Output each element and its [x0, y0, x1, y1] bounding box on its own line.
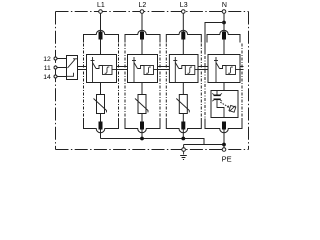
- spark gap FS ticks: [212, 93, 222, 101]
- wire module 1 to PE bus (elbow): [100, 130, 102, 139]
- spark gap box: [211, 91, 238, 118]
- module 2 outline top (solid bracket, wire hop): [125, 30, 160, 42]
- wire terminal 12: [57, 58, 67, 60]
- spark gap FS bottom electrode: [214, 99, 221, 101]
- svg-text:L2: L2: [139, 2, 147, 9]
- monitoring box U3: [169, 55, 198, 83]
- node bus-L3: [181, 137, 185, 141]
- monitoring chain lower wire 1-2: [117, 69, 128, 71]
- svg-text:14: 14: [43, 74, 51, 81]
- varistor R2 diagonal: [135, 99, 148, 113]
- module 4 left side (dash-dot): [204, 56, 206, 119]
- module 1 outline top (solid bracket, wire hop): [84, 30, 119, 42]
- node PE junction: [222, 143, 226, 147]
- lower disconnector module 4 (black): [222, 122, 226, 130]
- wire L2 down to module: [141, 13, 143, 54]
- node N junction: [222, 21, 226, 25]
- wire terminal 14: [57, 76, 67, 78]
- monitoring chain upper wire 2-3: [158, 66, 170, 68]
- chain stub lower after module 4: [240, 69, 244, 71]
- ground symbol: [180, 151, 187, 159]
- chain stub upper after module 4: [240, 66, 244, 68]
- spark gap FS top electrode: [214, 95, 221, 97]
- module 2 outline bottom (solid bracket, wire hop): [125, 119, 160, 133]
- box U3 contact tick: [173, 60, 177, 62]
- box U2 pulse step: [138, 66, 145, 69]
- varistor R1 body: [97, 95, 105, 114]
- varistor R1 diagonal: [94, 99, 107, 113]
- enclosure right border (dash-dot): [248, 12, 250, 150]
- FM changeover blade: [68, 59, 76, 68]
- thermal disconnector F1 (black): [99, 32, 103, 40]
- module 3 left side (dash-dot): [165, 44, 167, 119]
- monitoring box U1: [87, 55, 117, 83]
- module 1 outline bottom (solid bracket, wire hop): [84, 119, 119, 133]
- box U1 switch blade: [93, 63, 97, 69]
- box U4 contact tick: [214, 60, 218, 62]
- terminal L2: [140, 10, 144, 14]
- box U3 contact stem: [174, 57, 176, 82]
- trigger arrowhead: [227, 105, 230, 108]
- svg-text:12: 12: [43, 56, 51, 63]
- terminal 14: [54, 75, 57, 78]
- box U1 contact tick: [91, 60, 95, 62]
- wire box to spark gap box: [223, 83, 225, 91]
- thermal disconnector F3 (black): [181, 32, 185, 40]
- wire PE node to PE terminal: [223, 145, 225, 148]
- varistor R2 body: [138, 95, 146, 114]
- terminal L1: [99, 10, 103, 14]
- svg-text:PE: PE: [222, 155, 232, 164]
- box U1 indicator square: [103, 66, 113, 75]
- box U3 indicator square: [185, 66, 195, 75]
- wire bus to earth terminal: [183, 145, 185, 148]
- FM contact box: [67, 56, 78, 80]
- box U2 square exit wire: [154, 69, 159, 71]
- wire N junction to module: [223, 23, 225, 55]
- terminal 11: [54, 66, 57, 69]
- spark gap FS bottom lead: [217, 100, 224, 117]
- PE bus lower run: [184, 144, 224, 146]
- varistor R3 body: [179, 95, 187, 114]
- box U2 contact tick: [132, 60, 136, 62]
- thermal disconnector F4 (black): [222, 32, 226, 40]
- module 2 right side (dash-dot): [159, 44, 161, 119]
- wire N branch to module left: [205, 23, 224, 55]
- svg-text:11: 11: [44, 65, 51, 72]
- thermal disconnector F2 (black): [140, 32, 144, 40]
- wire box to varistor 3: [182, 83, 184, 95]
- trigger square (tilted): [229, 105, 236, 112]
- wire varistor 3 down: [182, 114, 184, 123]
- node bus-L2: [140, 137, 144, 141]
- box U3 square exit wire: [195, 69, 200, 71]
- lower disconnector module 3 (black): [181, 122, 185, 130]
- box U2 contact stem: [133, 57, 135, 82]
- wire box to varistor 2: [141, 83, 143, 95]
- box U1 pulse step: [96, 66, 103, 69]
- wire terminal 11: [57, 67, 67, 69]
- FM contact 12 tick: [73, 58, 78, 60]
- trigger arrow (dashed): [220, 102, 228, 107]
- wire varistor 1 down: [100, 114, 102, 123]
- terminal L3: [182, 10, 186, 14]
- wire FM box to module 1 chain lower: [78, 69, 87, 71]
- varistor R3 diagonal: [176, 99, 189, 113]
- wire L3 down to module: [182, 13, 184, 54]
- box U4 contact stem: [215, 57, 217, 82]
- spark gap FS top lead: [216, 91, 218, 95]
- box U1 contact stem: [92, 57, 94, 82]
- wire FM box to module 1 chain upper: [78, 66, 87, 68]
- box U2 switch blade: [134, 63, 138, 69]
- svg-text:N: N: [222, 2, 227, 9]
- wire module 4 to PE node: [223, 130, 225, 145]
- box U3 switch blade: [175, 63, 179, 69]
- module 4 outline bottom (solid bracket, wire hop): [205, 119, 242, 133]
- FM contact 14 hook: [67, 73, 74, 77]
- terminal N: [222, 10, 226, 14]
- box U2 integral glyph: [146, 67, 151, 73]
- PE bus upper run: [101, 139, 205, 145]
- module 4 right side (dash-dot): [241, 44, 243, 119]
- wire L1 down to module: [100, 13, 102, 54]
- box U4 indicator square: [226, 66, 236, 75]
- module 4 outline top (solid bracket, wire hop): [207, 30, 240, 42]
- box U1 square exit wire: [112, 69, 117, 71]
- module 3 outline top (solid bracket, wire hop): [166, 30, 201, 42]
- enclosure top border (dash-dot): [56, 11, 249, 13]
- box U3 pulse step: [179, 66, 186, 69]
- enclosure left border (dash-dot): [55, 12, 57, 150]
- wire varistor 2 down: [141, 114, 143, 123]
- module 2 left side (dash-dot): [124, 44, 126, 119]
- lower disconnector module 1 (black): [99, 122, 103, 130]
- box U4 integral glyph: [228, 67, 233, 73]
- lower disconnector module 2 (black): [140, 122, 144, 130]
- module 1 right side (dash-dot): [118, 44, 120, 119]
- trigger square diagonal: [229, 106, 235, 112]
- monitoring chain lower wire 3-4: [198, 69, 208, 71]
- monitoring chain lower wire 2-3: [158, 69, 170, 71]
- box U4 square exit wire: [236, 69, 241, 71]
- earth terminal: [182, 148, 186, 152]
- wire module 3 to PE bus: [182, 130, 184, 139]
- svg-text:L1: L1: [97, 2, 105, 9]
- box U4 pulse step: [220, 66, 227, 69]
- monitoring box U2: [128, 55, 158, 83]
- box U4 switch blade: [216, 63, 220, 69]
- monitoring chain upper wire 3-4: [198, 66, 208, 68]
- wire N terminal down: [223, 13, 225, 22]
- module 3 right side (dash-dot): [200, 44, 202, 119]
- module 1 left side (dash-dot): [83, 44, 85, 119]
- terminal 12: [54, 57, 57, 60]
- wire box to varistor 1: [100, 83, 102, 95]
- module 3 outline bottom (solid bracket, wire hop): [166, 119, 201, 133]
- monitoring chain upper wire 1-2: [117, 66, 128, 68]
- monitoring box U4: [208, 55, 240, 83]
- box U3 integral glyph: [188, 67, 193, 73]
- svg-text:L3: L3: [180, 2, 188, 9]
- wire module 2 to PE bus: [141, 130, 143, 139]
- box U1 integral glyph: [105, 67, 110, 73]
- enclosure bottom border (dash-dot): [56, 149, 249, 151]
- terminal PE: [222, 148, 226, 152]
- box U2 indicator square: [144, 66, 154, 75]
